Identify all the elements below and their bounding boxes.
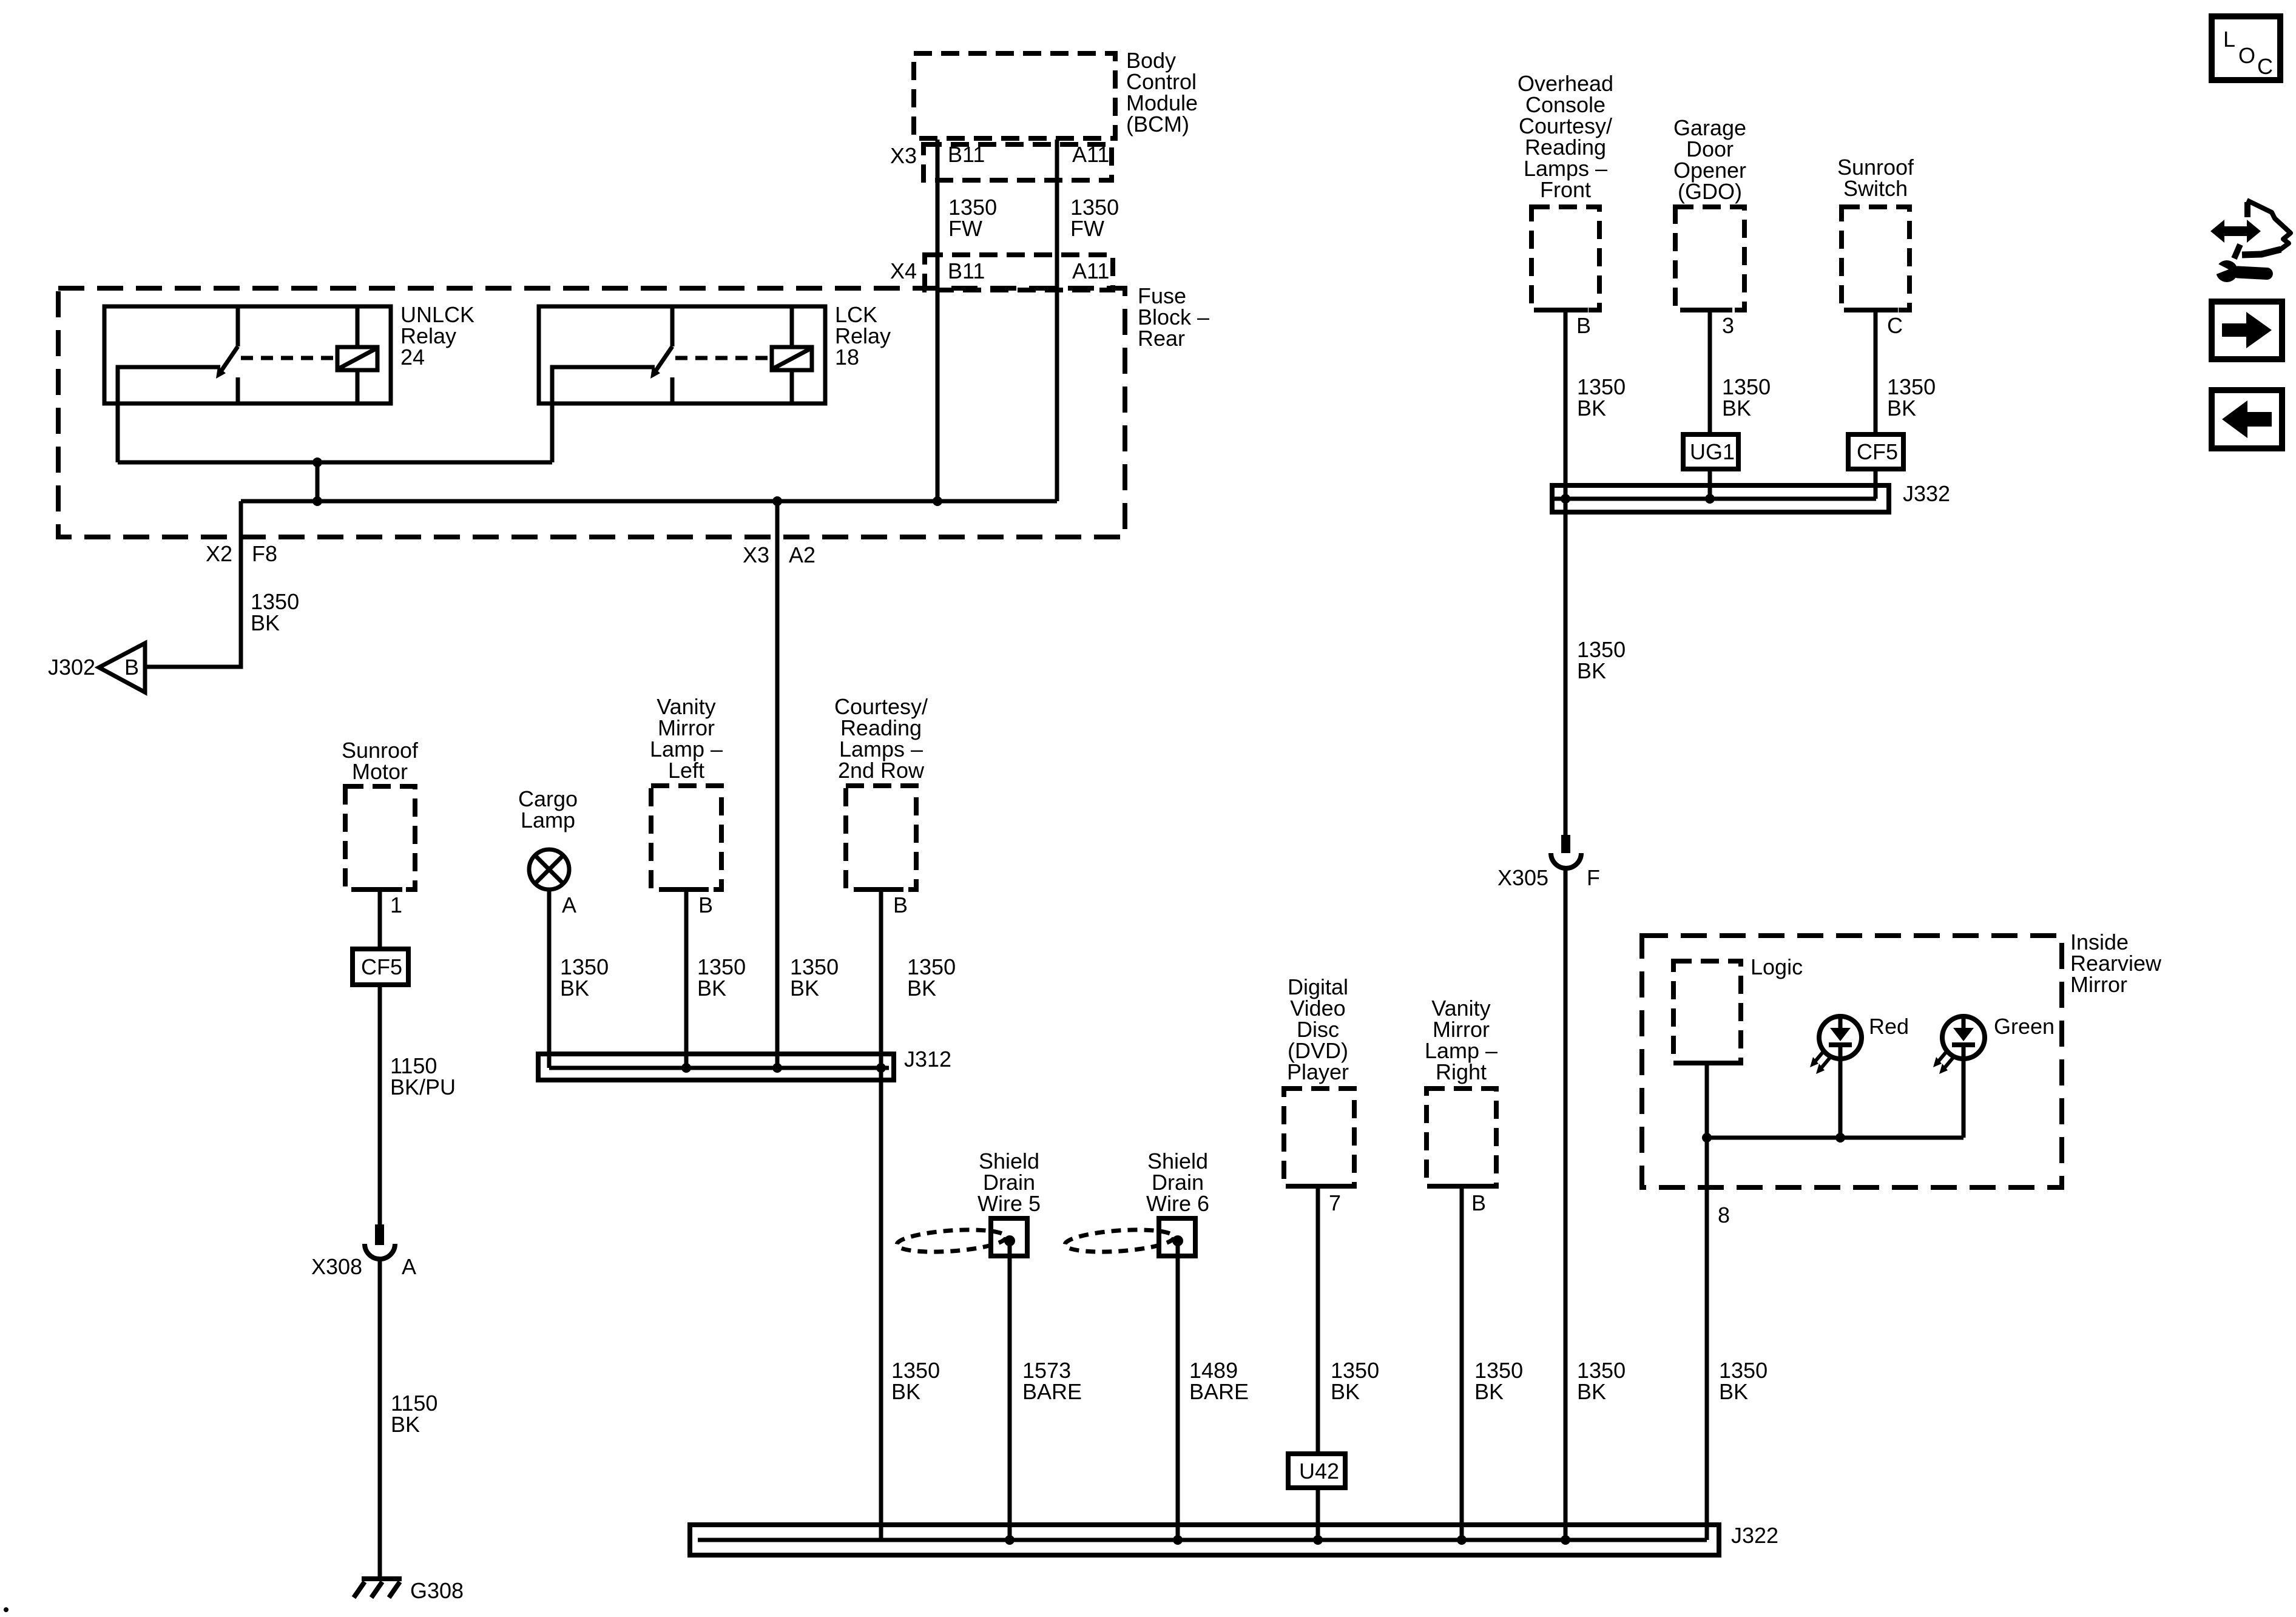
relay LCK common wire: [552, 367, 655, 462]
svg-text:J322: J322: [1731, 1523, 1778, 1548]
pin A11 (X4): [1072, 258, 1109, 283]
courtesy 2nd row dashed box: [846, 786, 916, 890]
relay UNLCK coil box: [337, 347, 377, 370]
svg-text:BK: BK: [1719, 1379, 1748, 1404]
pin 3 (GDO): [1722, 313, 1734, 338]
sunroof motor dashed box: [345, 786, 415, 890]
svg-text:Wire 6: Wire 6: [1146, 1191, 1209, 1216]
label G308: [410, 1578, 464, 1603]
svg-text:BK: BK: [1474, 1379, 1504, 1404]
svg-text:Player: Player: [1287, 1059, 1349, 1084]
svg-text:X3: X3: [890, 143, 917, 168]
wire red LED down: [1838, 1059, 1843, 1138]
wire label 1350 BK (vanity left): [697, 954, 746, 1001]
svg-text:CF5: CF5: [361, 954, 402, 979]
svg-text:1: 1: [390, 893, 402, 917]
label Overhead Console Courtesy/Reading Lamps - Front: [1518, 71, 1613, 202]
svg-text:J332: J332: [1903, 481, 1950, 506]
pin 1 (sunroof motor): [390, 893, 402, 917]
wire green LED down: [1962, 1059, 1966, 1138]
pin B (J302): [124, 655, 139, 680]
label Green: [1994, 1014, 2055, 1039]
relay UNLCK coil pins: [356, 306, 360, 403]
svg-text:BK: BK: [1887, 396, 1916, 420]
shield drain wire 5 loop: [896, 1227, 1007, 1255]
DVD player dashed box: [1284, 1089, 1354, 1186]
svg-text:Rear: Rear: [1138, 326, 1185, 351]
wire sunroof switch to CF5: [1874, 310, 1878, 434]
svg-text:O: O: [2238, 43, 2255, 68]
svg-text:8: 8: [1718, 1203, 1730, 1227]
wire B11 BCM to bus: [936, 140, 940, 501]
svg-text:X2: X2: [206, 541, 232, 566]
cargo lamp symbol: [529, 849, 569, 890]
wire label 1350 BK (X305-F): [1577, 1358, 1626, 1404]
pin B11 (X4): [948, 258, 985, 283]
svg-text:18: 18: [835, 345, 859, 370]
icon LOC box: [2212, 16, 2280, 80]
wire overhead console to X305: [1564, 310, 1568, 836]
wire logic down: [1705, 1063, 1709, 1138]
svg-text:Lamp: Lamp: [521, 808, 575, 832]
wire U42 to J322: [1316, 1488, 1320, 1540]
svg-text:BK: BK: [891, 1379, 920, 1404]
wire drain 5 to J322: [1008, 1241, 1012, 1540]
svg-text:A: A: [402, 1254, 416, 1279]
svg-text:Logic: Logic: [1751, 954, 1803, 979]
fuse CF5 (left): [353, 949, 408, 985]
wire A11 BCM to bus: [1055, 140, 1059, 501]
junction dot J332/UG1: [1705, 494, 1715, 504]
svg-text:J312: J312: [904, 1047, 951, 1072]
wire drain 6 to J322: [1176, 1241, 1180, 1540]
label Vanity Mirror Lamp - Left: [650, 694, 723, 783]
relay LCK coil box: [772, 347, 812, 370]
junction dot mirror/logic: [1702, 1133, 1712, 1143]
wire cargo lamp to J312: [547, 890, 552, 1068]
splice J322 bar: [690, 1525, 1719, 1555]
wire label 1350 BK (overhead): [1577, 374, 1626, 420]
wire DVD to U42: [1316, 1186, 1320, 1454]
junction dot J332/overhead: [1561, 494, 1570, 504]
label J322: [1731, 1523, 1778, 1548]
wire X3 A2 down to J312: [775, 501, 780, 1068]
junction dot J322/U42: [1313, 1535, 1323, 1545]
svg-text:B: B: [124, 655, 139, 680]
relay UNLCK switch blade: [216, 346, 238, 379]
label J302: [48, 655, 95, 680]
label Body Control Module (BCM): [1126, 48, 1198, 137]
label X308: [311, 1254, 362, 1279]
pin B (overhead console): [1576, 313, 1591, 338]
label Digital Video Disc (DVD) Player: [1287, 974, 1349, 1084]
junction dot bus/A2: [772, 496, 782, 506]
wire CF5 to X308: [378, 985, 382, 1226]
pin A11 (X3): [1072, 142, 1109, 167]
label Logic: [1751, 954, 1803, 979]
fuse block - rear dashed outline: [58, 288, 1125, 537]
svg-text:X3: X3: [743, 542, 769, 567]
svg-text:Wire 5: Wire 5: [977, 1191, 1041, 1216]
label Sunroof Switch: [1837, 155, 1914, 201]
vanity mirror left dashed box: [651, 786, 721, 890]
label X2: [206, 541, 232, 566]
svg-text:BK: BK: [560, 976, 589, 1001]
connector X4 dashed box: [925, 255, 1113, 290]
wire label 1350 BK (switch): [1887, 374, 1936, 420]
svg-text:Left: Left: [668, 758, 704, 783]
wire ground bus inside fuse block: [241, 499, 1057, 504]
svg-text:BK: BK: [1577, 396, 1606, 420]
relay LCK coil link dashed: [675, 356, 772, 360]
label Courtesy/Reading Lamps - 2nd Row: [834, 694, 928, 783]
relay UNLCK common wire: [118, 367, 220, 462]
svg-text:BK: BK: [251, 610, 280, 635]
pin 8 (mirror): [1718, 1203, 1730, 1227]
wire label 1350 BK (DVD): [1331, 1358, 1379, 1404]
wire vanity left to J312: [684, 890, 689, 1068]
relay LCK lower contact: [670, 377, 675, 403]
splice J312 bar: [538, 1054, 894, 1080]
relay LCK coil pins: [790, 306, 794, 403]
svg-text:BK: BK: [790, 976, 819, 1001]
label X3: [890, 143, 917, 168]
junction dot relay join: [312, 457, 322, 467]
relay UNLCK coil link dashed: [241, 356, 337, 360]
relay UNLCK lower contact: [236, 377, 240, 403]
pin B11 (X3): [948, 142, 985, 167]
label X3 (A2 row): [743, 542, 769, 567]
svg-text:A2: A2: [789, 542, 815, 567]
wire label 1350 FW right: [1070, 195, 1119, 241]
label LCK Relay 18: [835, 302, 891, 370]
vanity mirror right dashed box: [1427, 1089, 1496, 1186]
LED green light arrows: [1933, 1051, 1953, 1074]
svg-text:BK: BK: [907, 976, 936, 1001]
wire label 1350 BK (courtesy lower): [891, 1358, 940, 1404]
svg-text:B: B: [1576, 313, 1591, 338]
inside rearview mirror dashed box: [1642, 936, 2062, 1187]
pin B (vanity left): [698, 893, 713, 917]
svg-text:(BCM): (BCM): [1126, 112, 1189, 137]
svg-text:Green: Green: [1994, 1014, 2055, 1039]
svg-text:Switch: Switch: [1843, 176, 1908, 201]
fuse UG1: [1683, 434, 1738, 469]
LED red light arrows: [1810, 1051, 1830, 1074]
pin B (courtesy 2nd row): [893, 893, 908, 917]
svg-text:L: L: [2223, 27, 2235, 52]
wire label 1350 BK (mirror): [1719, 1358, 1768, 1404]
svg-text:Right: Right: [1436, 1059, 1487, 1084]
junction dot J322/X305: [1561, 1535, 1570, 1545]
svg-text:X305: X305: [1497, 865, 1548, 890]
junction dot J312/courtesy: [876, 1063, 886, 1073]
svg-text:B11: B11: [948, 258, 985, 283]
svg-text:BK: BK: [391, 1412, 420, 1437]
inline connector X305: [1551, 835, 1581, 868]
pin A2: [789, 542, 815, 567]
wire sunroof motor to CF5: [378, 890, 382, 949]
wire relay join to bus: [316, 462, 320, 501]
icon back arrow box: [2212, 390, 2282, 448]
junction dot J312/A2: [772, 1063, 782, 1073]
wire label 1150 BK: [391, 1391, 437, 1437]
wire label 1350 FW left: [948, 195, 997, 241]
relay LCK box: [539, 306, 825, 403]
svg-text:BK/PU: BK/PU: [390, 1075, 456, 1099]
pin F (X305): [1587, 865, 1600, 890]
svg-text:BARE: BARE: [1189, 1379, 1249, 1404]
svg-text:A11: A11: [1072, 258, 1109, 283]
label Garage Door Opener (GDO): [1673, 115, 1746, 204]
junction dot J312/vanity left: [681, 1063, 691, 1073]
svg-text:B: B: [1471, 1190, 1486, 1215]
icon adjustable component (hand with arrow and wrench): [2207, 200, 2291, 282]
label Sunroof Motor: [342, 738, 419, 784]
svg-text:X308: X308: [311, 1254, 362, 1279]
BCM dashed box: [914, 53, 1115, 138]
pin A (X308): [402, 1254, 416, 1279]
connector X3 dashed box: [923, 144, 1112, 180]
overhead console lamps dashed box: [1531, 207, 1599, 310]
label X305: [1497, 865, 1548, 890]
svg-text:A11: A11: [1072, 142, 1109, 167]
fuse U42: [1288, 1454, 1345, 1488]
svg-text:(GDO): (GDO): [1678, 179, 1742, 204]
svg-text:FW: FW: [948, 216, 982, 241]
svg-text:F8: F8: [252, 541, 277, 566]
label X4: [890, 258, 917, 283]
wire label 1350 BK (cargo): [560, 954, 609, 1001]
svg-text:FW: FW: [1070, 216, 1104, 241]
label J312: [904, 1047, 951, 1072]
junction dot mirror/red: [1835, 1133, 1845, 1143]
label Inside Rearview Mirror: [2070, 930, 2162, 997]
stray dot bottom left: [4, 1607, 8, 1612]
shield drain wire 5 box: [991, 1218, 1027, 1256]
pin 7 (DVD): [1329, 1190, 1341, 1215]
svg-text:7: 7: [1329, 1190, 1341, 1215]
svg-text:C: C: [2257, 54, 2273, 79]
wire mirror internal bus: [1707, 1136, 1963, 1140]
wire vanity right to J322: [1460, 1186, 1464, 1540]
svg-text:BK: BK: [697, 976, 726, 1001]
label Fuse Block - Rear: [1138, 283, 1209, 351]
label Vanity Mirror Lamp - Right: [1425, 996, 1497, 1084]
wire label 1350 BK (below J332): [1577, 637, 1626, 683]
wire label 1573 BARE: [1022, 1358, 1082, 1404]
sunroof switch dashed box: [1842, 207, 1909, 310]
wire GDO to UG1: [1708, 310, 1712, 434]
junction dot J322/vanity right: [1457, 1535, 1467, 1545]
wire CF5 to J332: [1874, 469, 1878, 499]
svg-text:BK: BK: [1722, 396, 1751, 420]
svg-text:Red: Red: [1869, 1014, 1909, 1039]
wire label 1489 BARE: [1189, 1358, 1249, 1404]
pin C (sunroof switch): [1887, 313, 1903, 338]
label Shield Drain Wire 5: [977, 1149, 1041, 1216]
pin B (vanity right): [1471, 1190, 1486, 1215]
svg-text:BK: BK: [1331, 1379, 1360, 1404]
wire courtesy 2nd row to J322: [879, 890, 883, 1540]
junction dot bus/relay feed: [312, 496, 322, 506]
wire UG1 to J332: [1708, 469, 1712, 499]
wire label 1350 BK (A2): [790, 954, 839, 1001]
svg-text:24: 24: [400, 345, 425, 370]
label Cargo Lamp: [518, 786, 578, 832]
wire label 1350 BK (vanity right): [1474, 1358, 1523, 1404]
svg-text:B11: B11: [948, 142, 985, 167]
wire X305 to J322: [1564, 869, 1568, 1540]
wire X308 to ground: [378, 1260, 382, 1579]
wire label 1350 BK (F8): [251, 589, 299, 635]
junction dot J322/drain5: [1005, 1535, 1015, 1545]
wire label 1350 BK (GDO): [1722, 374, 1771, 420]
svg-text:2nd Row: 2nd Row: [838, 758, 925, 783]
svg-text:BK: BK: [1577, 1379, 1606, 1404]
inline connector X308: [365, 1224, 395, 1259]
svg-text:CF5: CF5: [1857, 439, 1898, 464]
svg-text:J302: J302: [48, 655, 95, 680]
svg-text:B: B: [698, 893, 713, 917]
pin A (cargo lamp): [562, 893, 576, 917]
svg-text:A: A: [562, 893, 576, 917]
splice J332 bar: [1552, 485, 1889, 512]
wire mirror pin 8 to J322: [1705, 1138, 1709, 1540]
label UNLCK Relay 24: [400, 302, 474, 370]
svg-text:C: C: [1887, 313, 1903, 338]
svg-text:G308: G308: [410, 1578, 464, 1603]
LED green: [1942, 1016, 1985, 1059]
relay LCK switch blade: [650, 346, 672, 379]
icon forward arrow box: [2212, 302, 2282, 359]
svg-text:X4: X4: [890, 258, 917, 283]
shield drain wire 6 box: [1159, 1218, 1195, 1256]
shield drain wire 6 loop: [1064, 1227, 1175, 1255]
svg-text:BARE: BARE: [1022, 1379, 1082, 1404]
svg-text:U42: U42: [1299, 1459, 1339, 1484]
fuse CF5 (right): [1848, 434, 1903, 469]
svg-text:3: 3: [1722, 313, 1734, 338]
label Red: [1869, 1014, 1909, 1039]
svg-text:UG1: UG1: [1690, 439, 1735, 464]
GDO dashed box: [1675, 207, 1744, 310]
connector J302 arrow: [99, 643, 145, 692]
wire label 1350 BK (courtesy): [907, 954, 956, 1001]
ground G308: [354, 1579, 402, 1598]
svg-text:Mirror: Mirror: [2070, 972, 2127, 997]
LED red: [1819, 1016, 1862, 1059]
svg-text:F: F: [1587, 865, 1600, 890]
junction dot J322/drain6: [1173, 1535, 1183, 1545]
wire X2 F8 to J302: [145, 501, 241, 667]
wire relay commons join: [118, 461, 552, 465]
relay UNLCK box: [104, 306, 391, 403]
junction dot bus/B11: [933, 496, 942, 506]
svg-text:B: B: [893, 893, 908, 917]
relay UNLCK switch pin: [236, 306, 240, 346]
label Shield Drain Wire 6: [1146, 1149, 1209, 1216]
relay LCK switch pin: [670, 306, 675, 346]
logic dashed box: [1673, 961, 1741, 1063]
svg-text:BK: BK: [1577, 658, 1606, 683]
svg-text:Motor: Motor: [352, 759, 408, 784]
svg-text:Front: Front: [1540, 177, 1591, 202]
label J332: [1903, 481, 1950, 506]
pin F8: [252, 541, 277, 566]
wire label 1150 BK/PU: [390, 1053, 456, 1099]
